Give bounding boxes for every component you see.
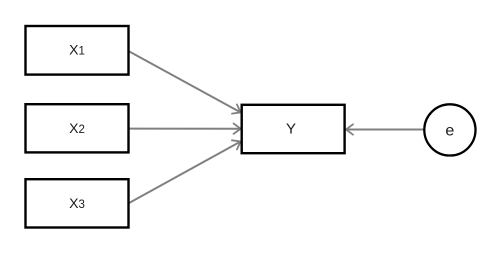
box X3 [26,179,129,227]
circle e [424,104,475,155]
box Y [242,105,345,153]
box X2 [26,104,129,152]
wire X2 to Y arrow [128,128,240,130]
wire X1 to Y arrow [128,51,240,112]
wire e to Y arrow [346,129,424,131]
svg-text:e: e [445,122,454,139]
wire X3 to Y arrow [128,142,240,204]
svg-text:Y: Y [286,121,296,138]
box X1 [26,26,129,75]
